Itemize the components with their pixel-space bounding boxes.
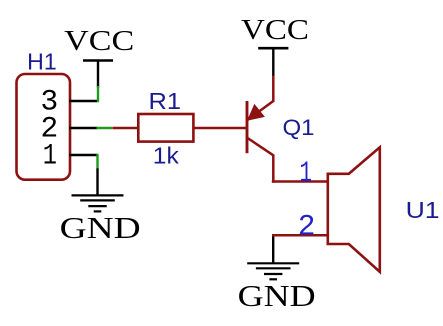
svg-text:R1: R1 — [149, 88, 182, 114]
svg-text:1: 1 — [43, 138, 57, 172]
svg-text:H1: H1 — [27, 49, 57, 75]
svg-text:GND: GND — [60, 210, 141, 245]
svg-text:U1: U1 — [406, 197, 440, 223]
svg-text:1: 1 — [300, 156, 313, 190]
svg-text:VCC: VCC — [64, 25, 134, 57]
svg-text:Q1: Q1 — [283, 115, 315, 140]
svg-text:GND: GND — [238, 278, 316, 313]
svg-text:1k: 1k — [153, 143, 180, 169]
svg-text:2: 2 — [298, 210, 316, 244]
svg-text:VCC: VCC — [241, 14, 309, 46]
